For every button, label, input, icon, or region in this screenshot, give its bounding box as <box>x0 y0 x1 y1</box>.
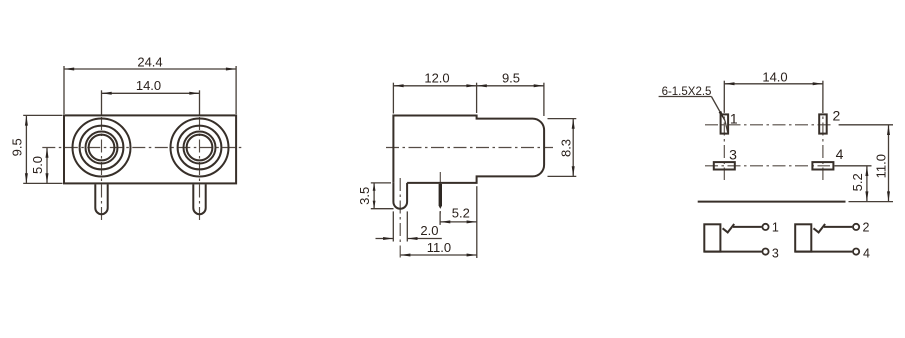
svg-text:24.4: 24.4 <box>137 54 162 69</box>
svg-text:4: 4 <box>863 246 870 260</box>
svg-text:12.0: 12.0 <box>424 70 449 85</box>
svg-text:4: 4 <box>836 146 844 162</box>
svg-text:9.5: 9.5 <box>10 138 25 156</box>
svg-text:5.0: 5.0 <box>30 156 45 174</box>
svg-text:3.5: 3.5 <box>357 187 372 205</box>
svg-text:8.3: 8.3 <box>558 139 573 157</box>
svg-text:3: 3 <box>729 146 737 162</box>
svg-text:14.0: 14.0 <box>762 69 787 84</box>
svg-text:2: 2 <box>833 108 841 124</box>
svg-text:1: 1 <box>730 110 738 126</box>
svg-text:11.0: 11.0 <box>427 240 451 255</box>
svg-text:6-1.5X2.5: 6-1.5X2.5 <box>662 86 712 98</box>
svg-text:14.0: 14.0 <box>136 78 161 93</box>
svg-text:2.0: 2.0 <box>420 223 438 238</box>
svg-text:11.0: 11.0 <box>873 154 888 178</box>
svg-text:5.2: 5.2 <box>850 173 865 191</box>
svg-text:3: 3 <box>772 246 779 260</box>
svg-text:5.2: 5.2 <box>452 206 470 221</box>
svg-text:9.5: 9.5 <box>502 70 520 85</box>
svg-text:2: 2 <box>863 220 870 234</box>
svg-text:1: 1 <box>772 220 779 234</box>
